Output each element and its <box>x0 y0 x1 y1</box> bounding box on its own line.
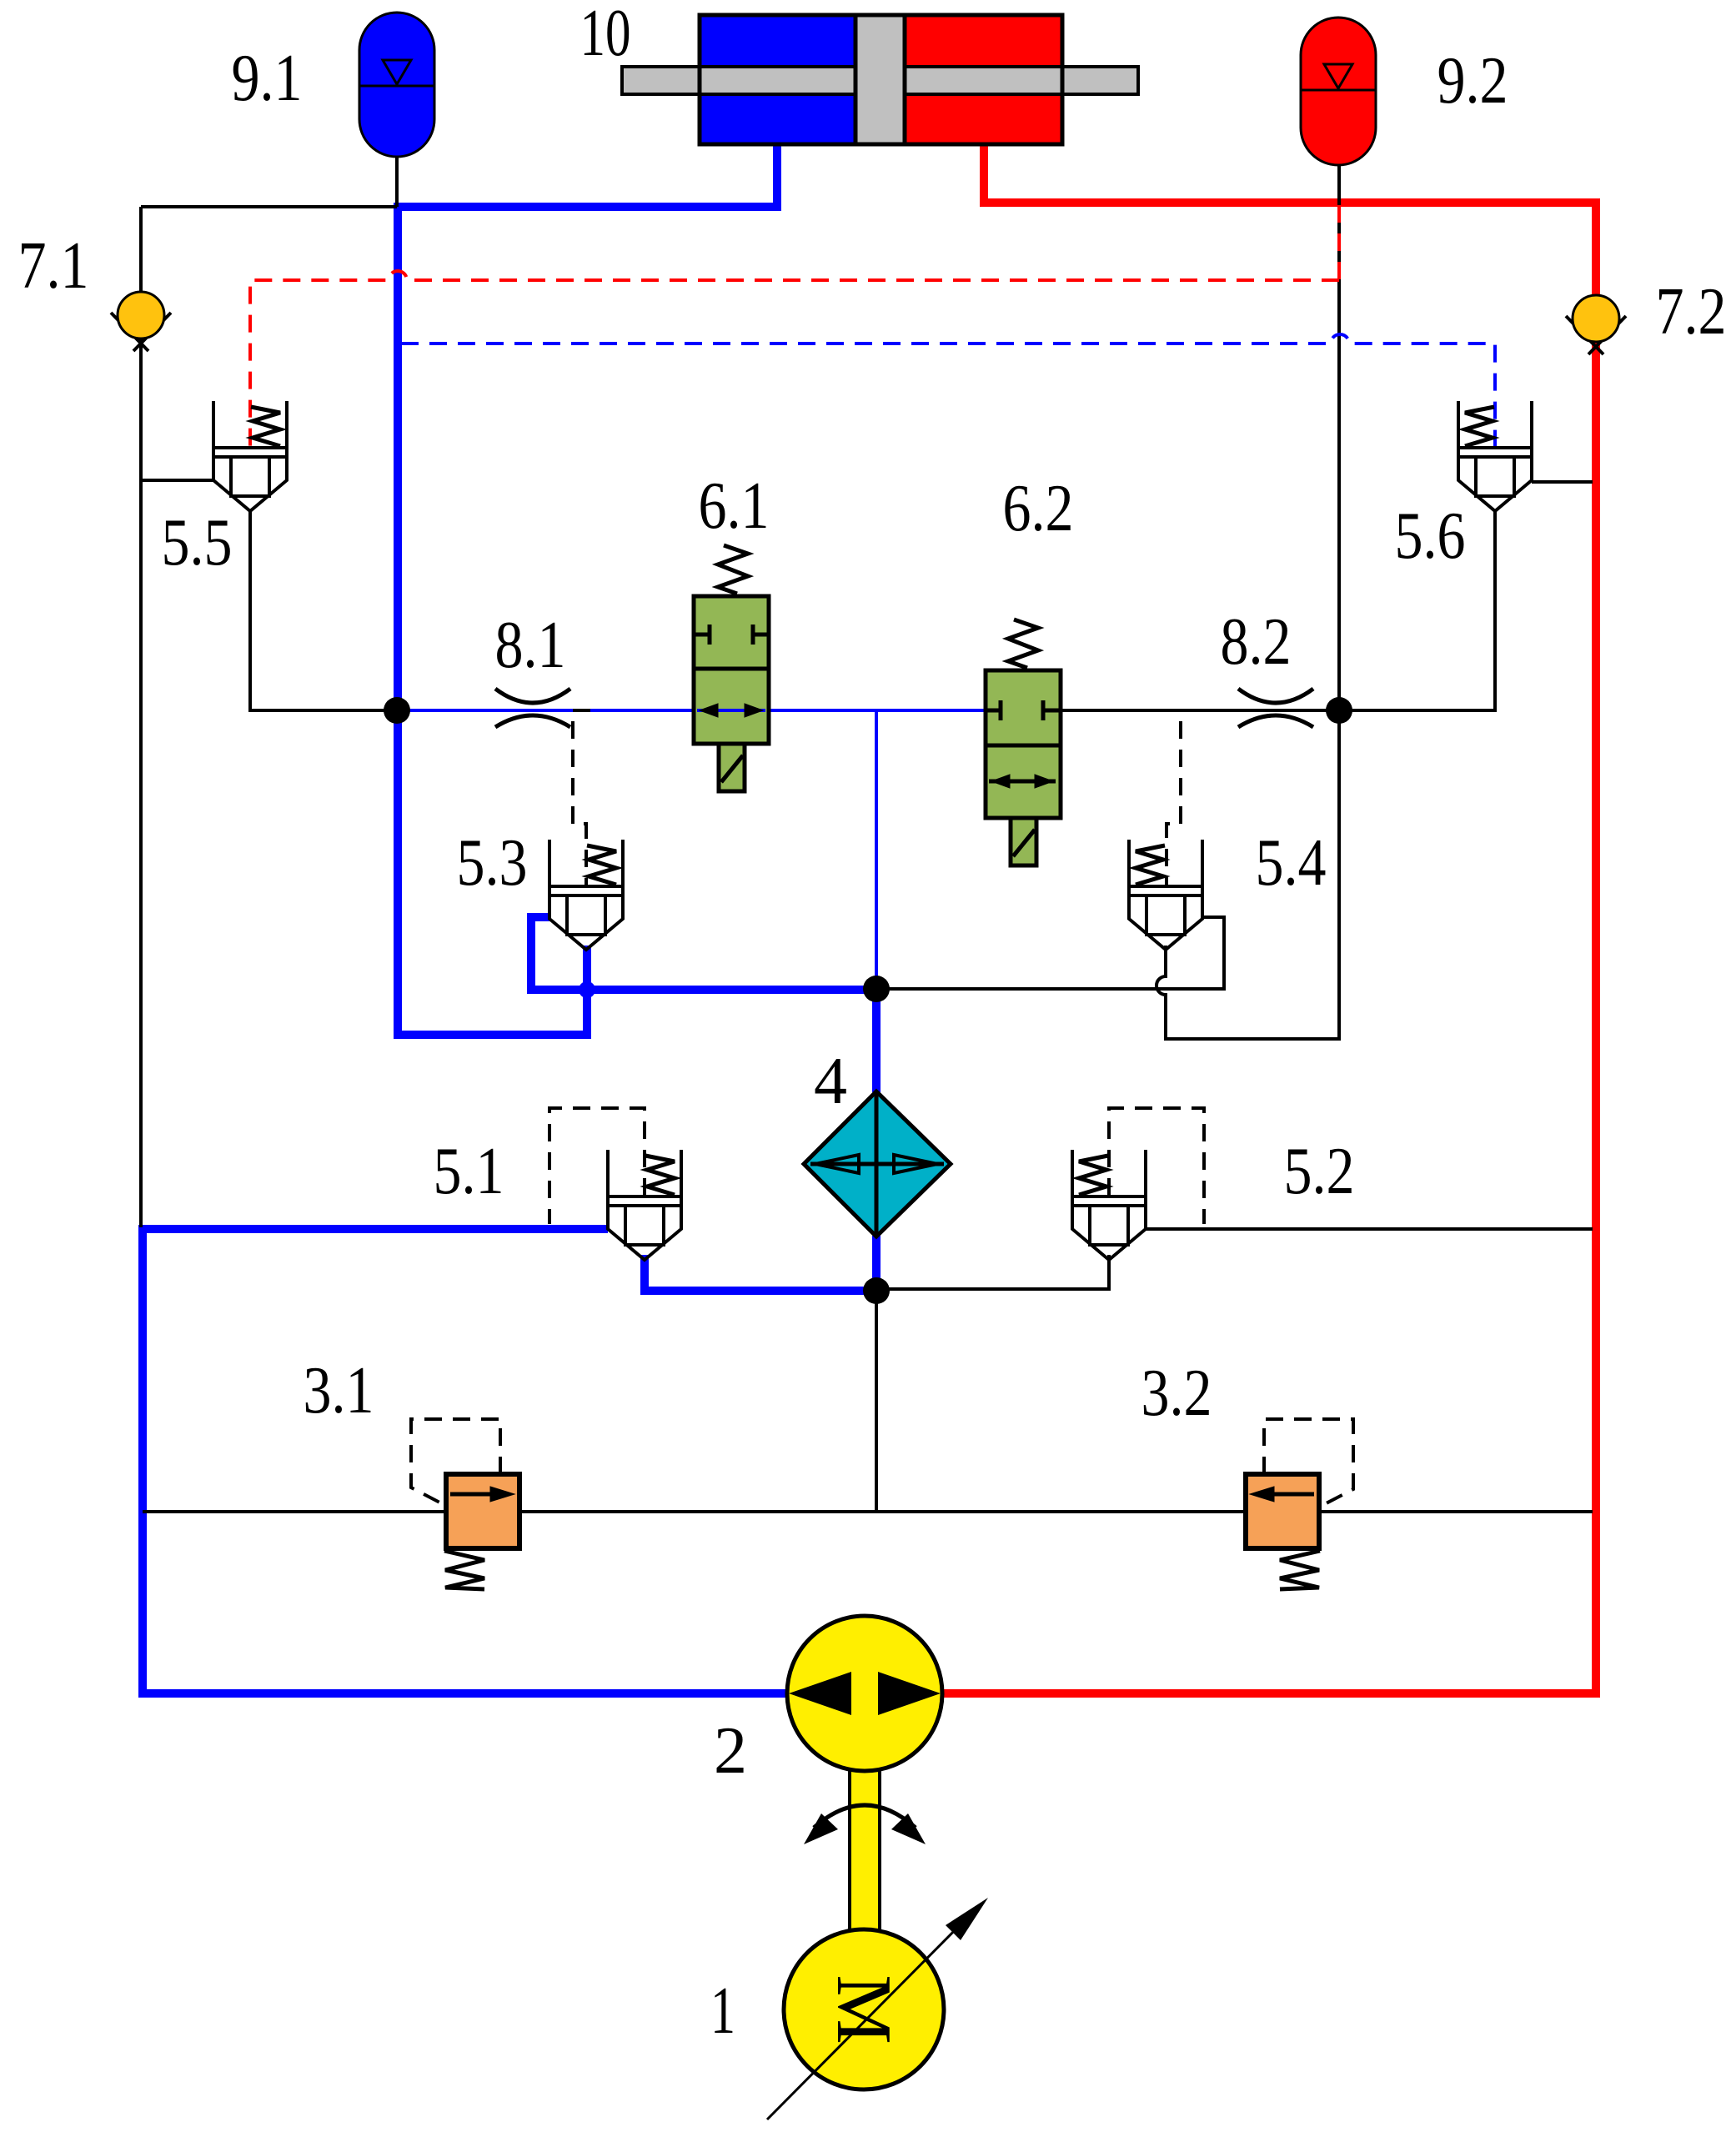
cylinder 10 body fills <box>700 15 1062 144</box>
svg-text:5.2: 5.2 <box>1284 1135 1355 1208</box>
valve 5.3 <box>549 840 623 950</box>
wire: valve 5.6 outlet to node C <box>1339 511 1495 710</box>
svg-text:9.2: 9.2 <box>1437 44 1508 118</box>
cylinder 10 piston <box>855 15 905 144</box>
svg-text:5.1: 5.1 <box>434 1135 504 1208</box>
wire: valve 5.6 side port to red rail <box>1532 480 1593 484</box>
wire: thin black line from 6.2 through orifice 8.2 to node C <box>1058 709 1339 712</box>
pilot line: black dashed valve 5.1 to blue rail <box>549 1108 645 1224</box>
wire blue 5.3 outlet bus <box>531 917 876 994</box>
wire: black line accumulator 9.2 down to node C <box>1337 165 1341 710</box>
svg-text:6.1: 6.1 <box>699 469 770 543</box>
pilot line: blue dashed from blue rail to valve 5.6 with hop over black line <box>401 334 1495 448</box>
svg-text:5.6: 5.6 <box>1395 499 1466 573</box>
wire: thin blue line through orifice 8.1 and valves 6.1/6.2 <box>397 710 986 989</box>
wire blue 5.1 outlet to node B <box>645 1255 876 1291</box>
wire: relief valve 3.2 line to red rail <box>1318 1510 1593 1513</box>
svg-text:7.2: 7.2 <box>1656 275 1727 349</box>
node B junction dot <box>863 1277 890 1304</box>
svg-text:5.4: 5.4 <box>1256 826 1327 900</box>
wire: node B down to relief valve line <box>875 1291 878 1512</box>
node E blue junction <box>579 981 595 998</box>
pump rotation arrows <box>804 1805 926 1844</box>
wire: valve 5.5 outlet to node D <box>250 511 397 710</box>
svg-text:5.3: 5.3 <box>457 826 528 900</box>
relief valve 3.2 <box>1246 1474 1320 1589</box>
cylinder 10 outline <box>700 15 1062 144</box>
wire blue left rail to valve 5.1 and pump <box>143 1229 792 1693</box>
svg-text:7.1: 7.1 <box>18 229 89 303</box>
sensor 7.2 <box>1566 295 1626 354</box>
orifice 8.2 <box>1238 689 1313 727</box>
pilot line: black dashed orifice 8.1 to valve 5.3 <box>573 710 590 886</box>
motor 1 <box>767 1898 988 2119</box>
valve 5.4 <box>1129 840 1202 950</box>
valve 6.2 solenoid 2/2 normally closed <box>986 620 1061 865</box>
wire: valve 5.4 outlet with hop down to node C line <box>1156 710 1339 1039</box>
pilot line: black dashed for relief valve 3.1 <box>411 1419 500 1506</box>
wire: black line accumulator 9.1 to sensor 7.1 branch <box>141 157 397 1227</box>
valve 6.1 solenoid 2/2 normally open <box>694 545 769 791</box>
valve 5.5 <box>213 401 287 511</box>
svg-text:5.5: 5.5 <box>162 506 233 579</box>
pilot line: black dashed valve 5.2 to its outlet line <box>1109 1108 1204 1224</box>
valve 5.1 <box>608 1150 681 1260</box>
relief valve 3.1 <box>444 1474 519 1589</box>
svg-text:6.2: 6.2 <box>1003 472 1074 545</box>
svg-text:9.1: 9.1 <box>232 42 303 115</box>
wire: valve 5.5 inlet from 7.1 line <box>141 479 213 482</box>
wire blue diamond 4 to node B <box>872 1236 881 1291</box>
svg-text:8.2: 8.2 <box>1221 605 1292 679</box>
valve 5.6 <box>1458 401 1532 511</box>
pump 2 shaft <box>850 1771 880 1929</box>
wire blue cylinder to accumulator junction and down to node A <box>398 143 777 1035</box>
svg-text:1: 1 <box>710 1974 735 2048</box>
pilot line: red dashed from red pipe to valve 5.5 with hop over blue rail <box>250 205 1339 448</box>
svg-text:8.1: 8.1 <box>495 609 566 682</box>
accumulator 9.1 <box>359 13 434 157</box>
wire blue node A to diamond 4 <box>872 989 881 1092</box>
pilot line: black dashed for relief valve 3.2 <box>1264 1419 1353 1507</box>
wire: thick red B-line from cylinder rod end to right rail and pump <box>938 143 1596 1693</box>
wire: relief valve 3.1 line <box>143 1510 1246 1513</box>
node D junction dot <box>384 697 410 724</box>
svg-text:10: 10 <box>580 0 631 70</box>
orifice 8.1 <box>495 689 570 727</box>
filter 4 <box>804 1091 951 1237</box>
svg-text:2: 2 <box>714 1714 747 1788</box>
svg-text:3.1: 3.1 <box>304 1354 374 1427</box>
wire: valve 5.2 side port to red rail <box>1146 1227 1593 1231</box>
svg-text:4: 4 <box>814 1045 847 1118</box>
svg-text:3.2: 3.2 <box>1141 1357 1212 1430</box>
valve 5.2 <box>1072 1150 1146 1260</box>
cylinder 10 rod <box>622 67 1138 94</box>
svg-text:M: M <box>820 1974 907 2044</box>
accumulator 9.2 <box>1301 18 1376 165</box>
pump 2 <box>787 1616 942 1771</box>
wire: valve 5.2 outlet to node B <box>876 1255 1109 1289</box>
wire: node A to valve 5.4 side port <box>876 917 1224 989</box>
sensor 7.1 <box>111 292 171 351</box>
node C junction dot <box>1326 697 1352 724</box>
pilot line: black dashed orifice 8.2 side to valve 5.4 <box>1163 710 1181 886</box>
wire: thick blue A-line from cylinder cap end to left blue network <box>143 143 876 1693</box>
node A junction dot <box>863 976 890 1002</box>
